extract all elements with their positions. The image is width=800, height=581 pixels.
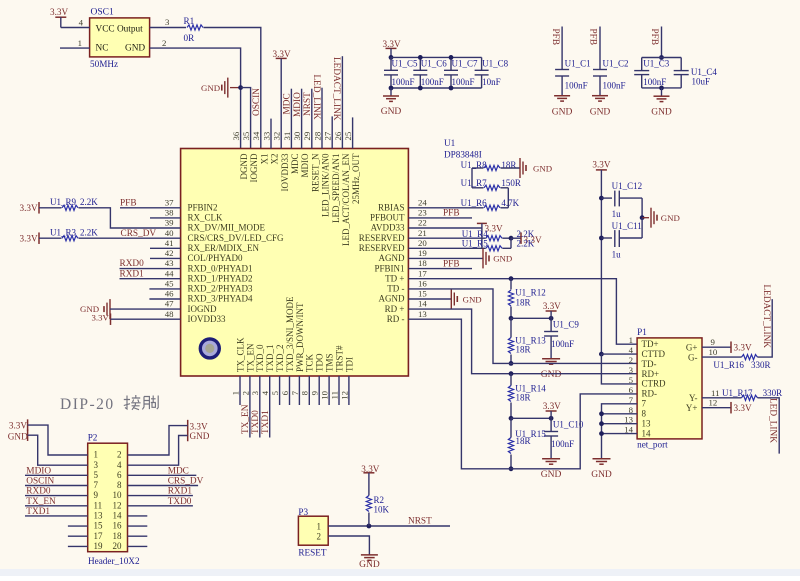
junction R12 bottom / C9 [509,316,514,321]
svg-text:3: 3 [250,390,260,395]
wire bottom pin 9 [318,376,320,405]
svg-text:RD -: RD - [387,314,405,324]
svg-text:23: 23 [418,208,427,218]
svg-text:VCC Output: VCC Output [96,25,144,35]
ground below C5 bank [390,88,392,96]
svg-text:14: 14 [418,299,427,309]
svg-text:RESET_N: RESET_N [310,153,320,192]
svg-text:GND: GND [359,560,380,570]
svg-text:U1_R6: U1_R6 [461,198,488,208]
svg-text:39: 39 [165,218,174,228]
svg-text:48: 48 [165,309,174,319]
svg-text:U1_C7: U1_C7 [452,59,479,69]
svg-text:U1_C10: U1_C10 [553,420,584,430]
svg-text:RXD_3/PHYAD4: RXD_3/PHYAD4 [188,294,254,304]
svg-text:X1: X1 [259,154,269,165]
svg-text:100nF: 100nF [603,81,626,91]
svg-text:1: 1 [230,391,240,395]
svg-text:10: 10 [320,390,330,399]
svg-text:IOVDD33: IOVDD33 [188,314,226,324]
junction R4 right [509,236,514,241]
svg-text:U1_C9: U1_C9 [553,320,580,330]
svg-text:U1_R16: U1_R16 [713,360,744,370]
ground below C3 [661,88,663,96]
svg-text:19: 19 [94,541,104,551]
svg-text:3: 3 [94,460,99,470]
wire 3.3V to R3 [39,237,62,239]
wire bottom pin 1 [239,376,241,405]
wire P2 pin 10 [128,495,193,497]
svg-text:3: 3 [629,365,634,375]
wire R1 to X1 (pin 34) [204,28,261,149]
svg-text:TCK: TCK [305,353,315,372]
wire junction to IOGND pin 35 [241,88,251,149]
junction C10 top [549,416,554,421]
title text jiao-pin (CJK strokes) [124,395,158,410]
wire pin 27 stub [331,116,333,148]
svg-text:18: 18 [113,531,123,541]
P1 pin 9 wire to 3.3V [702,346,731,348]
svg-text:100nF: 100nF [565,81,588,91]
svg-text:100nF: 100nF [551,439,574,449]
wire 3.3V to P2 pin 2 [128,426,188,455]
svg-text:TX_EN: TX_EN [245,343,255,372]
svg-text:8: 8 [642,409,647,419]
svg-text:PFBIN1: PFBIN1 [374,263,404,273]
wire pin 45 [149,288,180,290]
svg-text:2.2K: 2.2K [80,197,98,207]
wire P3 pin 1 NRST [328,525,450,527]
resistor U1_R3 2.2K [62,236,78,241]
svg-text:14: 14 [113,511,123,521]
svg-text:25MHz_OUT: 25MHz_OUT [351,153,361,204]
svg-text:24: 24 [418,197,427,207]
svg-text:GND: GND [125,44,145,54]
svg-text:GND: GND [381,107,402,117]
wire PFB to C3/C4 loop [661,27,663,58]
svg-text:4: 4 [629,345,634,355]
wire P3 pin 2 to GND [328,536,369,555]
svg-text:1: 1 [629,335,633,345]
svg-text:10nF: 10nF [482,77,501,87]
wire RD+ pin 14 to P1 pin 3 [408,309,637,374]
wire R9 to pin 39 [79,208,181,228]
svg-text:100nF: 100nF [392,77,415,87]
svg-text:LED_ACT/COL/AN_EN: LED_ACT/COL/AN_EN [341,153,351,246]
wire bottom pin 4 [269,376,271,438]
svg-text:2: 2 [317,532,322,542]
junction C12 top [599,196,604,201]
svg-text:4: 4 [117,460,122,470]
svg-text:LEDACT_LINK: LEDACT_LINK [331,57,341,121]
ground at P3 pin 2 [361,554,378,556]
wire pin 29 NRST [311,89,313,149]
svg-text:TD -: TD - [387,284,404,294]
junction C3/C4 loop bottom [642,87,682,89]
svg-text:100nF: 100nF [643,77,666,87]
wire junction to C9 [511,317,551,319]
svg-text:4: 4 [79,18,84,28]
resistor U1_R12 18R [508,290,513,306]
wire P2 pin 9 [25,495,88,497]
wire pin 25 stub [352,117,354,148]
capacitor U1_C9 100nF [550,318,552,331]
junction P1 pin 13 [599,421,604,426]
svg-text:RESERVED: RESERVED [359,233,405,243]
svg-text:PWR_DOWN/INT: PWR_DOWN/INT [295,302,305,372]
wire pin 37 [120,207,181,209]
svg-text:RXD0: RXD0 [120,259,145,269]
wire P2 pin 19 [68,545,88,547]
resistor U1_R16 330R [742,355,758,360]
resistor U1_R15 18R [510,418,512,437]
wire P2 pin 17 [68,535,88,537]
svg-text:3.3V: 3.3V [383,39,401,49]
wire pin 28 LED_LINK [321,88,323,149]
svg-text:LED_LINK: LED_LINK [311,75,321,120]
svg-text:OSC1: OSC1 [91,8,114,18]
svg-text:RESERVED: RESERVED [359,243,405,253]
wire bottom pin 7 [298,376,300,405]
svg-text:RD-: RD- [642,389,658,399]
svg-text:10: 10 [113,490,123,500]
svg-text:DIP-20: DIP-20 [60,396,115,413]
svg-text:X2: X2 [270,154,280,165]
connector P3 RESET body [298,516,328,545]
svg-text:4.7K: 4.7K [501,198,519,208]
svg-text:2.2K: 2.2K [517,239,535,249]
svg-text:NRST: NRST [408,516,432,526]
wire pin 43 [120,268,181,270]
wire R16 to LEDACT_LINK [758,299,773,357]
svg-text:5: 5 [270,390,280,395]
wire P2 pin 16 [128,525,148,527]
svg-text:18R: 18R [516,436,531,446]
svg-text:30: 30 [292,131,302,140]
svg-text:TD+: TD+ [642,339,659,349]
wire TD+ pin 17 to P1 pin 1 [408,279,637,345]
svg-text:TDO: TDO [315,353,325,372]
svg-text:TDI: TDI [344,357,354,372]
resistor R1 0R [187,25,203,30]
wire pin 18 [408,268,472,270]
junction C3/C4 loop top [659,55,664,60]
svg-text:28: 28 [312,131,322,140]
svg-text:TXD1: TXD1 [261,410,271,434]
svg-text:TX_CLK: TX_CLK [235,337,245,372]
connector P1 net_port body [637,338,702,439]
svg-text:11: 11 [711,388,719,398]
svg-text:LEDACT_LINK: LEDACT_LINK [761,285,771,349]
wire P2 pin 11 [25,505,88,507]
resistor R2 10K [368,473,370,496]
svg-text:20: 20 [418,238,427,248]
svg-text:TX_EN: TX_EN [241,404,251,434]
svg-text:GND: GND [541,370,562,380]
svg-text:9: 9 [94,490,99,500]
svg-text:Header_10X2: Header_10X2 [88,556,140,566]
junction R13 bottom on TD- line [509,361,514,366]
capacitor U1_C10 100nF [550,418,552,431]
junction R2 bottom [367,524,372,529]
svg-text:PFBIN2: PFBIN2 [188,203,218,213]
P1 pin 12 wire to 3.3V [702,407,731,409]
wire R3 to pin 40 [79,237,181,239]
svg-text:13: 13 [418,309,427,319]
svg-text:1: 1 [94,450,99,460]
svg-text:IOGND: IOGND [249,153,259,182]
wire pin 31 MDC [290,89,292,149]
ground below P1 [593,458,611,460]
svg-text:45: 45 [165,279,174,289]
svg-text:RXD_1/PHYAD2: RXD_1/PHYAD2 [188,273,253,283]
svg-text:6: 6 [280,390,290,395]
svg-text:7: 7 [94,480,99,490]
svg-text:U1_R7: U1_R7 [461,178,488,188]
junction C5 bottom [389,86,394,91]
svg-text:32: 32 [272,132,282,141]
svg-text:NC: NC [96,44,109,54]
junction RD+ R14 top [509,371,514,376]
svg-text:47: 47 [165,299,174,309]
svg-text:19: 19 [418,248,427,258]
svg-text:50MHz: 50MHz [90,59,118,69]
junction R15 bottom on RD- line [509,466,514,471]
svg-text:RX_CLK: RX_CLK [188,213,224,223]
svg-text:18R: 18R [516,298,531,308]
capacitor U1_C6 100nF [419,57,421,70]
junction P1 pin 14 [599,431,604,436]
svg-text:21: 21 [418,228,427,238]
svg-text:TD-: TD- [642,359,657,369]
wires P1 pins 7 8 13 14 to ground [602,404,638,459]
wire P2 pin 15 [68,525,88,527]
svg-text:2.2K: 2.2K [80,227,98,237]
svg-text:PFB: PFB [588,29,598,46]
svg-text:U1_R9: U1_R9 [50,197,77,207]
svg-text:OSCIN: OSCIN [252,88,262,116]
svg-text:2: 2 [117,450,122,460]
svg-text:7: 7 [642,399,647,409]
junction P1 pin 4 rail [599,352,604,357]
svg-text:PFB: PFB [649,29,659,46]
wire rail to P1 pin 5 CTRD [601,354,637,384]
svg-text:GND: GND [541,470,562,480]
svg-text:LED_LINK/AN0: LED_LINK/AN0 [321,153,331,217]
svg-text:TXD_0: TXD_0 [255,344,265,372]
wire GND to P2 pin 4 [128,436,188,466]
wire 3.3V rail down to P1 pin 4 [600,170,602,354]
svg-text:15: 15 [418,289,427,299]
svg-text:TMS: TMS [325,353,335,372]
svg-text:DP83848I: DP83848I [444,150,482,160]
svg-text:40: 40 [165,228,174,238]
wire pin 26 LEDACT_LINK [341,56,343,148]
svg-text:11: 11 [329,391,339,399]
wire pin 33 stub [270,119,272,149]
svg-text:U1_R4: U1_R4 [462,229,489,239]
wire RD- pin 13 to P1 pin 6 [408,319,637,469]
svg-text:RX_DV/MII_MODE: RX_DV/MII_MODE [188,223,266,233]
wire bottom pin 10 [328,376,330,405]
svg-text:RD +: RD + [385,304,405,314]
svg-text:PFB: PFB [550,29,560,46]
top rail C5-C8 [391,56,482,58]
svg-text:29: 29 [302,131,312,140]
svg-text:15: 15 [94,521,104,531]
wire bottom pin 11 [338,376,340,405]
svg-text:U1_R3: U1_R3 [50,227,77,237]
svg-text:CTTD: CTTD [642,349,666,359]
svg-text:2: 2 [629,355,633,365]
wire P2 pin 7 [25,485,88,487]
svg-text:PFB: PFB [443,259,460,269]
svg-text:18: 18 [418,258,427,268]
svg-text:41: 41 [165,238,174,248]
wire GND to P2 pin 3 [28,435,88,465]
svg-text:U1: U1 [444,138,456,148]
svg-text:3: 3 [165,17,170,27]
junction C9 top [549,316,554,321]
wire P2 pin 18 [128,535,148,537]
svg-text:330R: 330R [763,388,783,398]
wire pin 19 to GND [408,257,483,259]
svg-text:IOGND: IOGND [188,304,217,314]
wire pin 20 to R5 [408,247,485,249]
capacitor U1_C5 100nF [390,57,392,70]
wire OSC1 pin 3 to R1 [150,27,186,29]
ground at C11/C12 [642,217,649,219]
junction P1 pin 8 [599,411,604,416]
svg-text:TD +: TD + [385,273,404,283]
svg-text:2: 2 [240,391,250,395]
wire bottom pin 12 [348,376,350,405]
wire R7 right to R6 right [507,188,509,208]
capacitor U1_C7 100nF [450,57,452,70]
svg-text:42: 42 [165,248,174,258]
svg-text:3.3V: 3.3V [9,421,27,431]
svg-text:U1_C1: U1_C1 [565,59,591,69]
svg-text:Y+: Y+ [686,403,698,413]
svg-text:RD+: RD+ [642,369,660,379]
svg-text:3.3V: 3.3V [273,49,291,59]
svg-text:MDC: MDC [283,93,293,114]
svg-text:16: 16 [113,521,123,531]
svg-text:Y-: Y- [689,393,698,403]
svg-text:IOVDD33: IOVDD33 [280,153,290,191]
svg-text:TXD_3/SNI_MODE: TXD_3/SNI_MODE [285,296,295,372]
svg-text:U1_C2: U1_C2 [603,59,629,69]
svg-text:16: 16 [418,279,427,289]
ground at R8 [519,158,521,178]
svg-text:P3: P3 [298,507,308,517]
svg-text:3.3V: 3.3V [20,234,38,244]
svg-text:RXD_0/PHYAD1: RXD_0/PHYAD1 [188,263,253,273]
svg-text:COL/PHYAD0: COL/PHYAD0 [188,253,244,263]
svg-text:10K: 10K [374,505,390,515]
svg-text:1: 1 [317,522,322,532]
svg-text:44: 44 [165,268,174,278]
wire PFB to U1_C2 [599,27,601,70]
svg-text:TRST#: TRST# [334,345,344,372]
junction C5 top [389,55,394,60]
svg-text:net_port: net_port [637,440,668,450]
svg-text:36: 36 [231,131,241,140]
svg-text:38: 38 [165,208,174,218]
svg-text:U1_R12: U1_R12 [515,288,546,298]
svg-text:3.3V: 3.3V [20,203,38,213]
svg-text:3.3V: 3.3V [734,403,752,413]
wire pin 42 [150,257,181,259]
wire pin 15 to GND [408,298,451,300]
wire OSC1 pin 1 [60,47,90,49]
capacitor U1_C11 1u [601,237,612,239]
svg-text:3.3V: 3.3V [734,343,752,353]
svg-text:G-: G- [688,353,698,363]
svg-text:3.3V: 3.3V [543,401,561,411]
svg-text:10: 10 [709,347,718,357]
svg-text:GND: GND [190,431,210,441]
wire bottom pin 3 [259,376,261,438]
wire pin 46 [149,298,180,300]
svg-text:22: 22 [418,218,427,228]
svg-text:100nF: 100nF [551,339,574,349]
svg-text:3.3V: 3.3V [92,312,110,322]
oscillator OSC1 body [90,18,150,57]
wire OSC1 pin 4 [61,27,90,29]
svg-text:8: 8 [117,480,122,490]
capacitor U1_C2 100nF [593,69,607,71]
wire R17 to LED_LINK [758,398,780,454]
svg-text:R1: R1 [184,16,195,26]
svg-text:10uF: 10uF [692,76,711,86]
bottom rail C5-C8 [391,87,482,89]
wire pin 48 [111,318,181,320]
wire PFB to U1_C1 [561,27,563,70]
svg-text:34: 34 [251,131,261,140]
svg-text:G+: G+ [686,343,698,353]
junction C11/C12 GND [640,215,645,220]
wire 3.3V to R9 [39,207,62,209]
wire pin 38 [150,217,181,219]
wire TD- pin 16 to P1 pin 2 [408,289,637,364]
svg-text:U1_C3: U1_C3 [643,59,670,69]
wire P2 pin 20 [128,545,148,547]
svg-text:150R: 150R [501,178,521,188]
wire R8 left to R7 left [471,168,473,188]
svg-text:9: 9 [310,390,320,395]
svg-text:U1_R5: U1_R5 [462,239,489,249]
junction TD+ R12 top [509,276,514,281]
svg-text:LED_SPEED/AN1: LED_SPEED/AN1 [331,154,341,224]
wire pin 30 MDIO [301,89,303,149]
resistor U1_R13 18R [510,318,512,337]
svg-text:31: 31 [282,132,292,141]
svg-text:3.3V: 3.3V [190,422,208,432]
svg-text:1: 1 [78,38,82,48]
wire P2 pin 8 [128,485,199,487]
svg-text:AGND: AGND [379,294,405,304]
svg-text:6: 6 [629,385,634,395]
svg-text:TXD0: TXD0 [251,410,261,434]
resistor U1_R17 330R [742,395,758,400]
svg-text:MDIO: MDIO [293,92,303,117]
ground at pin 15 AGND [450,289,452,309]
svg-text:11: 11 [94,500,103,510]
ground below C10 [542,458,560,460]
svg-text:35: 35 [241,131,251,140]
svg-text:0R: 0R [184,33,196,43]
